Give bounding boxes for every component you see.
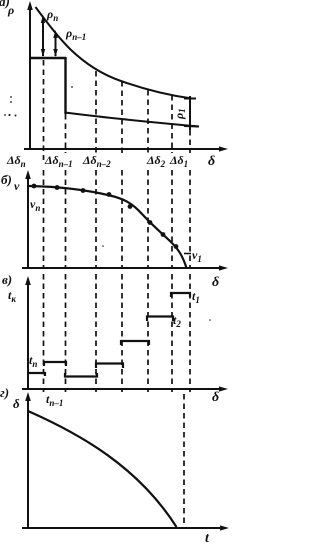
dashed division line x=66 graph б (65, 170, 67, 268)
dashed division line x=172 graph в (171, 274, 173, 392)
dashed division line x=122 graph б (121, 170, 123, 268)
dashed division line x=190 graph в (189, 274, 191, 392)
x-axis graph г (22, 525, 229, 530)
x-axis graph в (22, 386, 228, 391)
dashed division line x=96 graph а (95, 71, 97, 153)
data points graph б (32, 184, 179, 249)
dashed division line x=148 graph б (147, 170, 149, 268)
curve δ(t) graph г (28, 411, 177, 527)
dashed continuation of cliff x=65 graph а (65, 114, 67, 153)
svg-text:в): в) (2, 272, 12, 287)
curve v(δ) graph б (29, 186, 187, 268)
scan specks (4, 86, 211, 321)
dashed division line x=148 graph а (147, 90, 149, 153)
dashed division line x=44 graph в (43, 274, 45, 392)
leader dash to v1 (184, 253, 191, 255)
dashed division line x=44 graph б (43, 170, 45, 268)
step segment 1 graph в (28, 373, 45, 376)
dashed division line x=96 graph б (95, 170, 97, 268)
y-axis graph в (25, 276, 31, 390)
lower curve graph а (65, 113, 199, 127)
svg-text:δ: δ (212, 390, 219, 405)
svg-text:ρ: ρ (7, 3, 14, 17)
dashed division line x=122 graph в (121, 274, 123, 392)
step segment 6 graph в (147, 317, 173, 322)
step segment 7 graph в (171, 293, 190, 297)
dashed division line x=96 graph в (95, 274, 97, 392)
svg-text:δ: δ (212, 275, 219, 290)
step segment 5 graph в (121, 341, 149, 345)
svg-text:δ: δ (208, 154, 215, 169)
right end vertical bracket graph а (184, 96, 199, 130)
dashed division line x=190 graph б (189, 170, 191, 268)
dashed division line x=172 graph а (171, 95, 173, 153)
level line at top of last pass (30, 57, 66, 60)
dashed division line x=44 graph а (43, 60, 45, 160)
svg-text:v: v (14, 179, 20, 193)
step segment 3 graph в (65, 373, 97, 377)
upper curve ρ(δ) graph а (36, 7, 193, 99)
dashed line at total time graph г (183, 394, 185, 527)
dashed division line x=122 graph а (121, 81, 123, 153)
step segment 2 (tп) graph в (44, 362, 66, 366)
svg-text:г): г) (0, 385, 9, 400)
dimension arrow ρп (41, 15, 45, 57)
y-axis graph г (25, 392, 31, 529)
dashed division line x=190 graph а (189, 130, 191, 153)
step segment 4 graph в (96, 364, 123, 369)
dashed division line x=66 graph в (65, 274, 67, 392)
dashed division line x=172 graph б (171, 170, 173, 268)
y-axis graph б (25, 170, 31, 269)
y-axis graph а (27, 1, 33, 150)
cliff drop line (64, 57, 66, 114)
x-axis graph б (22, 265, 228, 270)
svg-text:б): б) (1, 172, 12, 187)
svg-text:δ: δ (13, 396, 20, 411)
dimension arrow ρп-1 (53, 30, 57, 57)
x-axis graph а (24, 146, 228, 151)
dashed division line x=148 graph в (147, 274, 149, 392)
